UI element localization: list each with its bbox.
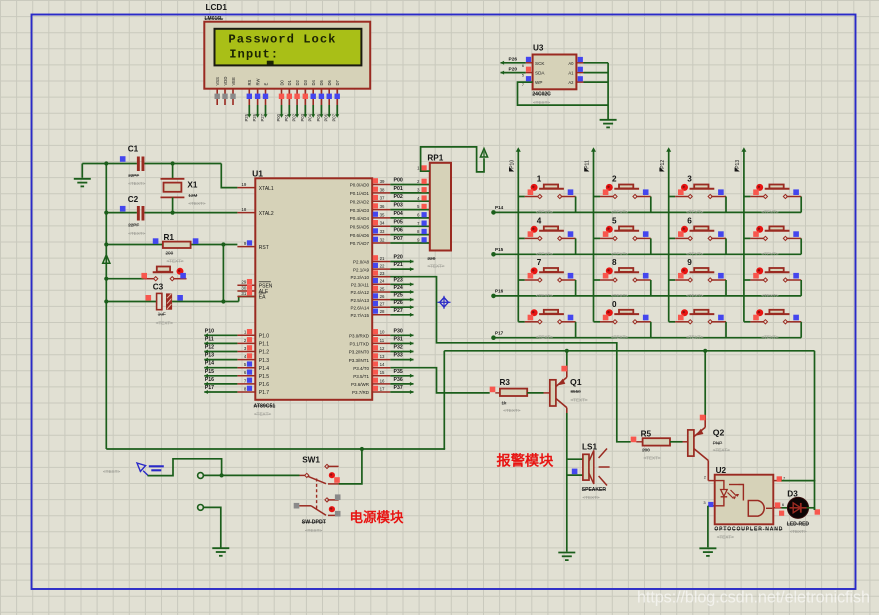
LCD wire D0 to P00: [276, 105, 284, 122]
wire battery to rail: [148, 459, 222, 476]
RP1 pin 5: [417, 204, 427, 209]
U1 pin 1 P1.0 with net label: [204, 328, 269, 339]
svg-text:C2: C2: [128, 195, 139, 204]
label LS1: [582, 442, 597, 451]
svg-text:P05: P05: [316, 113, 321, 121]
svg-text:6: 6: [522, 64, 524, 68]
svg-text:https://blog.csdn.net/eletroni: https://blog.csdn.net/eletronicfish: [637, 589, 870, 607]
svg-text:P33: P33: [394, 353, 403, 359]
svg-text:P14: P14: [495, 205, 504, 210]
label SW1: [302, 456, 320, 465]
svg-text:P36: P36: [394, 377, 403, 383]
svg-text:<TEXT>: <TEXT>: [686, 251, 703, 256]
U1 pin 28 P2.7 with net label: [350, 308, 413, 318]
svg-text:P10: P10: [205, 328, 214, 334]
svg-text:P0.1/AD1: P0.1/AD1: [350, 191, 370, 196]
U2 pin 7 VCC: [773, 476, 786, 482]
wire U2 to D3: [782, 507, 789, 509]
svg-text:R5: R5: [641, 429, 652, 438]
svg-text:29: 29: [241, 280, 246, 285]
svg-text:P1.6: P1.6: [259, 382, 270, 388]
svg-text:P3.3/INT1: P3.3/INT1: [349, 358, 370, 363]
svg-text:P3.5/T1: P3.5/T1: [353, 374, 369, 379]
svg-text:P0.0/AD0: P0.0/AD0: [350, 183, 370, 188]
svg-text:36: 36: [380, 204, 385, 209]
svg-text:<TEXT>: <TEXT>: [713, 448, 730, 453]
wire terminal to SW1: [203, 473, 299, 477]
svg-text:A1: A1: [568, 71, 574, 76]
U2 pin 3 cathode wire to ground: [703, 500, 714, 548]
wire VCC to Q1 emitter: [566, 351, 568, 366]
U2 pin 6 output: [773, 502, 785, 508]
speaker LS1: [567, 449, 610, 486]
svg-text:<TEXT>: <TEXT>: [305, 528, 322, 533]
wire terminal to ground: [203, 507, 220, 547]
svg-text:报警模块: 报警模块: [497, 453, 555, 470]
U1 pin 31 EA: [237, 290, 266, 301]
svg-text:P2.4/A12: P2.4/A12: [350, 290, 369, 295]
svg-text:P3.7/RD: P3.7/RD: [352, 390, 370, 395]
U1 pin 8 P1.7 with net label: [204, 385, 269, 396]
transistor Q1 (8550 PNP): [550, 366, 567, 414]
U1 pin 37 P0.2 wire to RP1: [350, 194, 430, 204]
RP1 pin 2: [417, 179, 427, 184]
svg-text:P37: P37: [394, 385, 403, 391]
net label P10: [509, 160, 515, 172]
svg-text:0: 0: [612, 300, 617, 309]
wire C1 row: [106, 163, 221, 165]
LCD wire D1 to P01: [284, 105, 292, 122]
svg-text:P13: P13: [205, 353, 214, 359]
svg-text:A2: A2: [568, 80, 574, 85]
svg-text:<TEXT>: <TEXT>: [128, 181, 145, 186]
svg-text:22PF: 22PF: [128, 222, 139, 227]
svg-text:R3: R3: [500, 378, 511, 387]
pushbutton keypad 9: [669, 258, 726, 298]
svg-text:P11: P11: [585, 160, 591, 169]
svg-text:P35: P35: [394, 369, 403, 375]
svg-text:LS1: LS1: [582, 442, 597, 451]
U1 pin 6 P1.5 with net label: [204, 369, 269, 380]
LCD pin D2: [294, 79, 300, 105]
svg-text:P2.1/A9: P2.1/A9: [353, 267, 370, 272]
svg-text:<TEXT>: <TEXT>: [536, 251, 553, 256]
pushbutton keypad r1c4: [744, 184, 801, 215]
svg-text:<TEXT>: <TEXT>: [611, 293, 628, 298]
U1 pin 16 P3.6 with net label: [351, 377, 414, 387]
svg-text:LED-RED: LED-RED: [787, 521, 810, 527]
U1 pin 23 P2.2 (wire to alarm net): [350, 270, 390, 280]
svg-text:<TEXT>: <TEXT>: [571, 397, 588, 402]
label alarm module (Chinese): [497, 453, 555, 470]
svg-text:SDA: SDA: [535, 71, 545, 76]
svg-text:4: 4: [537, 217, 542, 226]
svg-text:13: 13: [380, 354, 385, 359]
svg-text:14: 14: [380, 362, 385, 367]
svg-text:2: 2: [612, 175, 617, 184]
svg-text:D3: D3: [787, 489, 798, 498]
svg-text:P07: P07: [332, 113, 337, 121]
svg-text:U3: U3: [533, 44, 544, 53]
svg-text:OPTOCOUPLER-NAND: OPTOCOUPLER-NAND: [714, 527, 782, 533]
resistor pack RP1 body: [430, 163, 451, 251]
svg-text:P25: P25: [244, 113, 249, 121]
svg-text:1k: 1k: [502, 400, 508, 405]
svg-text:24: 24: [380, 279, 385, 284]
svg-text:EA: EA: [259, 295, 266, 301]
LCD pin VSS: [215, 77, 221, 105]
svg-text:32: 32: [380, 237, 385, 242]
value RP1 220: [427, 256, 444, 269]
svg-text:24C02C: 24C02C: [532, 91, 551, 97]
svg-text:8: 8: [612, 258, 617, 267]
svg-text:P15: P15: [495, 247, 504, 252]
svg-text:P02: P02: [394, 194, 403, 200]
value 24C02C: [532, 91, 551, 105]
svg-text:16: 16: [380, 378, 385, 383]
svg-text:30: 30: [241, 285, 246, 290]
svg-text:D5: D5: [319, 79, 324, 85]
RP1 pin 7: [417, 221, 427, 226]
U2 pin 2 anode: [704, 475, 715, 481]
wire VCC distribution line B: [444, 350, 814, 352]
svg-text:P26: P26: [509, 57, 518, 63]
power flag arrow on left rail: [103, 255, 110, 263]
svg-text:Q1: Q1: [570, 377, 582, 387]
pushbutton keypad r2c4: [744, 226, 801, 256]
svg-text:P1.2: P1.2: [259, 350, 270, 356]
svg-text:200: 200: [166, 251, 174, 256]
pushbutton keypad 4: [518, 217, 575, 257]
U1 pin 9 RST: [237, 240, 268, 251]
IC U3 body (24C02C): [533, 55, 577, 90]
keypad row wire P17: [491, 335, 801, 340]
svg-text:<TEXT>: <TEXT>: [644, 455, 661, 460]
wire P3.4 to R3: [390, 368, 489, 393]
svg-text:P06: P06: [324, 113, 329, 121]
svg-text:26: 26: [380, 294, 385, 299]
svg-text:P00: P00: [394, 178, 403, 184]
svg-text:D6: D6: [327, 79, 332, 85]
U1 pin 38 P0.1 wire to RP1: [350, 186, 430, 196]
svg-text:SW1: SW1: [302, 456, 320, 465]
U1 pin 22 P2.1 with net label: [353, 262, 414, 272]
wire X1 bottom: [172, 197, 174, 212]
svg-text:<TEXT>: <TEXT>: [536, 293, 553, 298]
svg-text:D4: D4: [311, 79, 316, 85]
svg-text:P3.0/RXD: P3.0/RXD: [349, 334, 370, 339]
svg-text:P17: P17: [205, 385, 214, 391]
connector terminal J1 bottom: [198, 505, 204, 511]
svg-text:<TEXT>: <TEXT>: [790, 529, 807, 534]
U1 pin 39 P0.0 wire to RP1: [350, 178, 430, 188]
pushbutton keypad r4c4: [744, 309, 801, 340]
svg-text:C1: C1: [128, 145, 139, 154]
RP1 pin 6: [417, 212, 427, 217]
U1 pin 32 P0.7 wire to RP1: [350, 236, 430, 246]
wire C3 row left: [106, 301, 157, 303]
svg-text:<TEXT>: <TEXT>: [717, 534, 734, 539]
U1 pin 30 ALE: [237, 285, 269, 296]
LCD pin VDD: [222, 77, 228, 105]
svg-text:200: 200: [642, 447, 650, 452]
svg-text:<TEXT>: <TEXT>: [167, 259, 184, 264]
LCD LM016L body: [204, 22, 370, 89]
svg-text:P12: P12: [205, 345, 214, 351]
svg-text:P01: P01: [394, 186, 403, 192]
svg-text:<TEXT>: <TEXT>: [536, 335, 553, 340]
U1 pin 26 P2.5 with net label: [350, 293, 413, 303]
U1 pin 29 PSEN: [237, 279, 272, 290]
keypad column wire P12: [666, 147, 671, 322]
svg-text:C3: C3: [153, 282, 164, 291]
svg-text:P16: P16: [205, 377, 214, 383]
LCD text line 1: [228, 32, 336, 46]
label AT89C51: [254, 403, 276, 416]
svg-text:P1.7: P1.7: [259, 390, 270, 396]
svg-text:19: 19: [241, 182, 246, 187]
svg-text:SW-DPDT: SW-DPDT: [302, 520, 327, 526]
svg-text:WP: WP: [535, 80, 542, 85]
svg-text:P1.0: P1.0: [259, 334, 270, 340]
net label P14: [495, 205, 504, 210]
svg-text:Q2: Q2: [713, 428, 725, 438]
svg-text:<TEXT>: <TEXT>: [156, 320, 173, 325]
LCD screen: [215, 29, 362, 66]
svg-text:5: 5: [612, 217, 617, 226]
svg-text:33: 33: [380, 229, 385, 234]
svg-text:<TEXT>: <TEXT>: [686, 209, 703, 214]
pushbutton keypad 7: [518, 258, 575, 298]
U3 right pin A1: [576, 67, 608, 73]
U1 pin 36 P0.3 wire to RP1: [350, 203, 430, 213]
svg-text:P30: P30: [394, 328, 403, 334]
pushbutton keypad 3: [669, 175, 726, 215]
U1 pin 33 P0.6 wire to RP1: [350, 228, 430, 238]
svg-text:P13: P13: [735, 160, 741, 169]
keypad row wire P15: [491, 252, 801, 257]
svg-text:31: 31: [241, 291, 246, 296]
IC U1 body (AT89C51): [255, 178, 372, 399]
wire bottom power rail: [106, 448, 444, 450]
svg-text:<TEXT>: <TEXT>: [536, 209, 553, 214]
svg-text:<TEXT>: <TEXT>: [128, 231, 145, 236]
svg-text:23: 23: [380, 271, 385, 276]
U1 pin 14 P3.4 (wire to R3): [353, 361, 390, 371]
U1 pin 15 P3.5 with net label: [353, 369, 413, 379]
svg-text:P0.6/AD6: P0.6/AD6: [350, 233, 370, 238]
LCD pin D5: [319, 79, 325, 105]
svg-text:27: 27: [380, 302, 385, 307]
svg-text:D7: D7: [335, 79, 340, 85]
svg-text:P3.2/INT0: P3.2/INT0: [349, 350, 370, 355]
U3 pin SCK wire P26: [501, 57, 575, 68]
svg-text:<TEXT>: <TEXT>: [611, 209, 628, 214]
svg-text:P01: P01: [284, 113, 289, 121]
keypad row wire P14: [491, 210, 801, 215]
U3 right pin A2: [576, 76, 608, 82]
svg-text:电源模块: 电源模块: [350, 509, 404, 525]
U1 pin 17 P3.7 with net label: [352, 385, 414, 395]
svg-text:P27: P27: [394, 308, 403, 314]
svg-text:<TEXT>: <TEXT>: [611, 335, 628, 340]
label Q1: [570, 377, 588, 403]
net label P16: [495, 289, 504, 294]
svg-text:D3: D3: [303, 79, 308, 85]
svg-text:8550: 8550: [571, 389, 582, 394]
svg-text:VSS: VSS: [215, 77, 220, 86]
svg-text:P15: P15: [205, 369, 214, 375]
svg-text:<TEXT>: <TEXT>: [611, 251, 628, 256]
svg-text:12M: 12M: [188, 193, 197, 198]
resistor R1: [153, 238, 199, 248]
keypad row wire P16: [491, 294, 801, 299]
RP1 pin 9: [417, 237, 427, 242]
LCD pin E: [263, 83, 269, 106]
svg-text:XTAL1: XTAL1: [259, 186, 274, 192]
svg-text:21: 21: [380, 256, 385, 261]
svg-text:RS: RS: [247, 79, 252, 85]
svg-text:22: 22: [380, 264, 385, 269]
switch SW1 (SW-DPDT): [294, 464, 341, 516]
capacitor C2: [120, 206, 144, 221]
pushbutton keypad r4c1: [518, 309, 575, 340]
label U3: [533, 44, 544, 53]
svg-text:<TEXT>: <TEXT>: [686, 293, 703, 298]
ground (battery): [212, 548, 229, 556]
wire rail riser to VCC line: [443, 351, 445, 449]
LCD pin D4: [311, 79, 317, 105]
svg-text:Input:: Input:: [229, 48, 279, 62]
LCD wire D2 to P02: [292, 105, 300, 122]
U1 pin 24 P2.3 with net label: [351, 277, 414, 287]
U2 internal LED: [715, 481, 739, 506]
keypad column wire P10: [516, 147, 521, 322]
junction dots on power net: [104, 161, 707, 451]
svg-text:P3.6/WR: P3.6/WR: [351, 382, 370, 387]
svg-text:D1: D1: [287, 79, 292, 85]
resistor R5: [631, 437, 670, 446]
svg-text:P12: P12: [660, 160, 666, 169]
svg-text:<TEXT>: <TEXT>: [427, 264, 444, 269]
label LM016L: [204, 16, 223, 30]
U1 pin 13 P3.3 with net label: [349, 353, 414, 363]
svg-text:17: 17: [380, 386, 385, 391]
RP1 pin 8: [417, 229, 427, 234]
svg-text:P31: P31: [394, 336, 403, 342]
svg-text:P2.7/A15: P2.7/A15: [350, 313, 369, 318]
svg-text:VDD: VDD: [223, 77, 228, 86]
svg-text:D0: D0: [279, 79, 284, 85]
keypad column wire P11: [591, 147, 596, 322]
svg-text:P0.4/AD4: P0.4/AD4: [350, 216, 370, 221]
wire VCC to Q2 collector: [704, 351, 706, 415]
svg-text:P2.0/A8: P2.0/A8: [353, 260, 370, 265]
svg-text:P00: P00: [276, 113, 281, 121]
svg-text:U2: U2: [716, 466, 727, 475]
svg-text:37: 37: [380, 196, 385, 201]
LCD pin D6: [327, 79, 333, 105]
svg-text:7: 7: [522, 83, 524, 87]
label LED-RED: [787, 521, 810, 534]
pushbutton keypad 1: [518, 175, 575, 215]
label C3: [153, 282, 174, 325]
svg-text:P17: P17: [495, 331, 504, 336]
U1 pin 21 P2.0 with net label: [353, 255, 414, 265]
wire C2 row: [106, 212, 237, 214]
LCD wire E to P27: [260, 105, 268, 122]
pushbutton reset: [141, 267, 186, 281]
svg-text:12: 12: [380, 346, 385, 351]
svg-text:RW: RW: [255, 79, 260, 86]
svg-text:P2.5/A13: P2.5/A13: [350, 298, 369, 303]
svg-text:38: 38: [380, 187, 385, 192]
svg-text:RST: RST: [259, 245, 269, 251]
svg-text:P20: P20: [509, 66, 518, 72]
battery symbol: [103, 463, 164, 476]
ground (top left): [74, 164, 91, 187]
svg-text:220: 220: [427, 256, 435, 262]
svg-text:R1: R1: [164, 233, 175, 242]
ground (LS1): [558, 553, 575, 561]
svg-text:P3.1/TXD: P3.1/TXD: [349, 342, 369, 347]
svg-text:15: 15: [380, 370, 385, 375]
label LCD1: [206, 3, 228, 12]
origin marker (blue cross): [438, 296, 451, 309]
LCD wire D4 to P04: [308, 105, 316, 122]
LCD pin VEE: [230, 77, 236, 105]
U1 pin 18 XTAL2: [237, 207, 274, 217]
svg-text:<TEXT>: <TEXT>: [533, 100, 550, 105]
svg-text:P11: P11: [205, 336, 214, 342]
label C2: [128, 195, 139, 204]
svg-text:X1: X1: [187, 181, 197, 190]
LCD wire D6 to P06: [324, 105, 332, 122]
LCD pin D1: [287, 79, 293, 105]
U1 pin 35 P0.4 wire to RP1: [350, 211, 430, 221]
svg-text:P04: P04: [394, 211, 403, 217]
IC U2 body (optocoupler): [715, 475, 774, 525]
wire Q1 to LS1 and ground: [566, 413, 568, 552]
U3 right pin A0: [576, 57, 608, 63]
label R5: [641, 429, 661, 460]
LCD pin D0: [279, 79, 285, 105]
U1 pin 12 P3.2 with net label: [349, 345, 414, 355]
svg-text:25: 25: [380, 286, 385, 291]
U3 pin SDA wire P20: [501, 66, 575, 77]
wire reset button row: [106, 278, 143, 280]
svg-text:PNP: PNP: [713, 441, 722, 446]
svg-text:5: 5: [522, 74, 524, 78]
capacitor C1: [120, 156, 144, 171]
label power module (Chinese): [350, 509, 404, 525]
keypad column wire P13: [741, 147, 746, 322]
U1 pin 34 P0.5 wire to RP1: [350, 219, 430, 229]
svg-text:P1.4: P1.4: [259, 366, 270, 372]
wire D3 to VCC drop: [807, 508, 815, 510]
svg-text:P2.6/A14: P2.6/A14: [350, 305, 369, 310]
svg-text:P0.7/AD7: P0.7/AD7: [350, 241, 370, 246]
wire R3 to Q1: [527, 392, 550, 394]
wire VCC drop to D3/U2: [814, 351, 816, 510]
svg-text:P25: P25: [394, 293, 403, 299]
label SPEAKER: [582, 487, 607, 500]
LCD pin RW: [255, 79, 261, 105]
ground (U2): [699, 548, 716, 556]
svg-text:E: E: [263, 83, 268, 86]
RP1 pin 4: [417, 195, 427, 200]
wire C1 row to ground: [82, 163, 106, 165]
